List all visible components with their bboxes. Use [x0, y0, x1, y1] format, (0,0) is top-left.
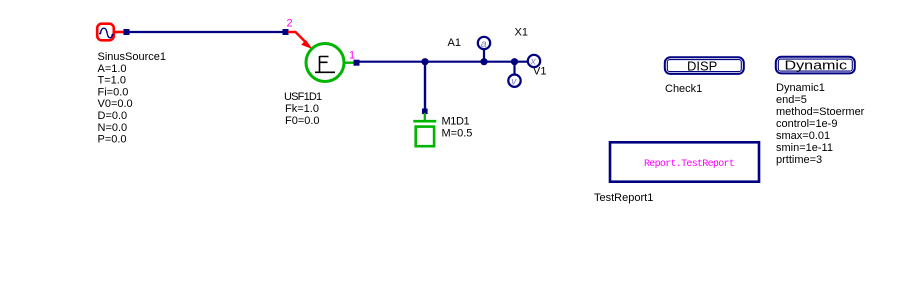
svg-text:Report.TestReport: Report.TestReport	[644, 159, 734, 170]
svg-text:D=0.0: D=0.0	[98, 110, 128, 122]
source SinusSource1	[97, 24, 114, 41]
junction dot at sensor V1 branch	[511, 58, 518, 65]
sensor X1 (position sensor circle at wire end)	[528, 55, 540, 68]
svg-text:Dynamic: Dynamic	[785, 58, 848, 73]
mass M1D1 (green square with top bar)	[413, 113, 436, 146]
pin junction at source output	[124, 29, 130, 35]
svg-text:P=0.0: P=0.0	[98, 134, 127, 146]
svg-text:x: x	[530, 57, 537, 68]
button Dynamic (simulation task)	[776, 57, 855, 74]
svg-text:N=0.0: N=0.0	[98, 122, 128, 134]
button DISP (Check1 task)	[665, 57, 744, 74]
svg-text:A=1.0: A=1.0	[98, 63, 127, 75]
wire: green stub from USF1D1 output	[344, 62, 354, 64]
svg-text:M1D1: M1D1	[442, 116, 470, 128]
sensor A1 (acceleration sensor circle)	[478, 37, 490, 62]
svg-text:M=0.5: M=0.5	[442, 128, 473, 140]
svg-text:TestReport1: TestReport1	[594, 192, 653, 204]
label USF1D1 and parameter values	[284, 91, 322, 127]
svg-text:prttime=3: prttime=3	[776, 154, 822, 166]
svg-text:X1: X1	[515, 27, 528, 39]
svg-text:control=1e-9: control=1e-9	[776, 118, 837, 130]
svg-text:method=Stoermer: method=Stoermer	[776, 106, 865, 118]
wire: red stub from source to pin	[114, 31, 124, 34]
wire: main horizontal wire right section	[359, 61, 528, 63]
junction dot at sensor A1 branch	[480, 58, 487, 65]
pin square at mass connection	[422, 109, 428, 115]
svg-text:V0=0.0: V0=0.0	[98, 98, 133, 110]
label SinusSource1 and parameter values	[98, 51, 167, 146]
svg-text:smax=0.01: smax=0.01	[776, 130, 830, 142]
junction dot at mass branch	[421, 58, 428, 65]
wire: red signal connection with arrowhead into USF1D1	[288, 32, 311, 48]
report block TestReport (rectangle)	[610, 142, 759, 181]
op-amp like converter USF1D1 (signal to force, green circle with F symbol)	[306, 44, 344, 82]
svg-text:DISP: DISP	[687, 59, 717, 74]
svg-text:F0=0.0: F0=0.0	[285, 115, 320, 127]
label Dynamic1 and parameter values	[776, 82, 865, 166]
svg-text:Check1: Check1	[665, 83, 702, 95]
svg-text:Fi=0.0: Fi=0.0	[98, 86, 129, 98]
svg-text:T=1.0: T=1.0	[98, 75, 126, 87]
svg-text:A1: A1	[448, 37, 461, 49]
node 2 junction square	[283, 29, 289, 35]
svg-text:Dynamic1: Dynamic1	[776, 82, 825, 94]
svg-text:a: a	[481, 38, 487, 50]
node 1 junction square	[354, 60, 360, 66]
svg-text:end=5: end=5	[776, 94, 807, 106]
wire: main horizontal wire left section	[129, 31, 285, 33]
svg-text:USF1D1: USF1D1	[284, 91, 322, 103]
wire: vertical wire down to mass M1D1	[424, 62, 426, 110]
svg-text:Fk=1.0: Fk=1.0	[285, 103, 319, 115]
svg-text:2: 2	[287, 18, 293, 30]
svg-text:SinusSource1: SinusSource1	[98, 51, 167, 63]
svg-text:smin=1e-11: smin=1e-11	[776, 142, 833, 154]
sensor V1 (velocity sensor circle)	[508, 62, 520, 88]
